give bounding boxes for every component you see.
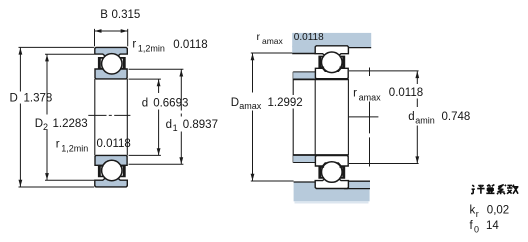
svg-text:r: r: [353, 87, 357, 99]
inner ring bottom (right view): [315, 156, 348, 166]
Damax dimension line: [252, 53, 254, 181]
svg-text:D: D: [10, 93, 18, 105]
inner ring top (left view): [95, 69, 127, 79]
shaft seat surface bottom: [293, 154, 348, 156]
B dimension line: [95, 30, 128, 32]
outer ring bottom (left view): [95, 178, 128, 187]
right bearing bore silhouette right: [347, 79, 349, 156]
cage right (right view bottom): [340, 166, 346, 179]
d1 dimension line: [180, 70, 182, 165]
ball bottom (right view): [322, 162, 343, 183]
svg-text:r: r: [257, 31, 261, 43]
housing bottom block: [294, 189, 370, 202]
housing top shoulder bottom edge: [292, 53, 315, 55]
svg-text:0.0118: 0.0118: [173, 39, 207, 51]
svg-text:1,2min: 1,2min: [61, 144, 88, 154]
cage right (bottom section): [120, 165, 126, 177]
d extension line top: [129, 78, 161, 80]
housing bottom seat line right of bearing: [344, 188, 370, 190]
wire right bore silhouette line: [126, 79, 128, 155]
svg-text:0.6693: 0.6693: [153, 97, 188, 109]
shaft left face: [292, 72, 294, 163]
right bearing bore silhouette left: [314, 79, 316, 156]
housing bottom left shoulder tab: [294, 182, 316, 189]
damin dimension line: [416, 71, 418, 163]
svg-text:k: k: [470, 205, 476, 217]
svg-text:1.2992: 1.2992: [268, 97, 303, 109]
svg-text:1: 1: [173, 123, 178, 133]
outer ring top (right view): [315, 46, 348, 56]
housing top left shoulder tab: [292, 46, 315, 54]
svg-text:r: r: [476, 209, 479, 219]
svg-text:amax: amax: [262, 36, 284, 46]
svg-text:d: d: [142, 97, 148, 109]
cage left (right view bottom): [318, 166, 324, 179]
outer ring bottom (right view): [315, 179, 348, 189]
cage left (bottom section): [98, 165, 104, 177]
svg-text:2: 2: [43, 122, 48, 132]
B dimension extension lines: [94, 29, 96, 46]
svg-text:0,02: 0,02: [487, 205, 509, 217]
D extension line bottom: [19, 186, 95, 188]
cage left (right view top): [318, 56, 324, 69]
svg-text:r: r: [132, 38, 136, 50]
shaft bottom shoulder bottom edge: [293, 162, 315, 164]
cage left (top section): [98, 57, 104, 69]
shaft seat surface top: [293, 78, 348, 80]
D2 extension line bottom: [45, 179, 94, 181]
damin extension line bottom: [349, 163, 419, 165]
d extension line bottom: [129, 154, 161, 156]
ball top (right view): [322, 52, 343, 73]
damin extension line top: [349, 70, 419, 72]
D extension line top: [19, 46, 95, 48]
svg-text:amin: amin: [415, 115, 435, 125]
Damax extension line bottom: [251, 180, 294, 182]
svg-text:d: d: [166, 119, 172, 131]
D dimension line: [19, 48, 21, 187]
cage right (right view top): [340, 56, 346, 69]
housing bottom left shoulder top edge: [294, 181, 316, 183]
shaft bottom shoulder: [293, 156, 315, 163]
svg-text:0.0118: 0.0118: [97, 138, 131, 150]
svg-text:0.748: 0.748: [442, 111, 471, 123]
housing top bore line right of bearing: [348, 47, 371, 49]
svg-text:amax: amax: [359, 92, 382, 102]
d dimension line: [158, 79, 160, 155]
d1 extension line bottom: [129, 163, 184, 165]
shaft top shoulder top edge: [293, 71, 315, 73]
ball top (left view): [102, 54, 122, 74]
D2 dimension line: [46, 54, 48, 180]
wire left bore silhouette line: [94, 79, 96, 155]
svg-text:0: 0: [474, 224, 479, 234]
svg-text:1,2min: 1,2min: [138, 43, 165, 53]
cage right (top section): [120, 57, 126, 69]
svg-text:0.8937: 0.8937: [183, 119, 218, 131]
svg-text:1.2283: 1.2283: [53, 118, 88, 130]
D2 extension line top: [45, 53, 94, 55]
svg-text:14: 14: [486, 220, 499, 232]
centerline (left view axis): [88, 114, 130, 116]
housing top bar: [292, 33, 371, 48]
ball bottom (left view): [102, 160, 122, 180]
Damax extension line top: [251, 52, 292, 54]
centerline cross vertical: [369, 68, 371, 167]
label jisuanxishu (Chinese, drawn strokes): [471, 185, 518, 195]
housing bottom right shoulder top edge: [348, 180, 370, 182]
outer ring top (left view): [95, 47, 128, 56]
svg-text:D: D: [35, 118, 43, 130]
svg-text:0.0118: 0.0118: [294, 32, 324, 43]
svg-text:d: d: [408, 111, 414, 123]
svg-text:B: B: [100, 9, 108, 21]
inner ring top (right view): [315, 68, 348, 78]
inner ring bottom (left view): [95, 155, 127, 165]
svg-text:0.315: 0.315: [112, 9, 141, 21]
housing bottom right shoulder tab: [348, 181, 370, 189]
svg-text:0.0118: 0.0118: [389, 87, 423, 99]
svg-text:1.378: 1.378: [24, 93, 53, 105]
shaft top shoulder: [293, 72, 315, 79]
d1 extension line top: [129, 68, 184, 70]
centerline cross horizontal: [349, 116, 379, 118]
svg-text:D: D: [231, 97, 239, 109]
svg-text:r: r: [56, 139, 60, 151]
svg-text:amax: amax: [239, 101, 262, 111]
